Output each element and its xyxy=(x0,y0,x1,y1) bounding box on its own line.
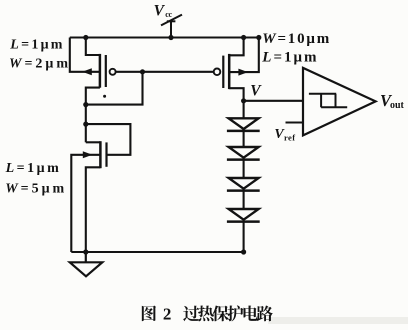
pmos M2 drain wire xyxy=(229,88,243,101)
nmos M3 gate bar xyxy=(105,142,107,166)
pmos M2 gate bar xyxy=(222,56,224,88)
svg-text:V: V xyxy=(250,82,262,99)
pmos M1 gate bubble xyxy=(110,69,116,75)
svg-text:W=10μm: W=10μm xyxy=(262,31,331,47)
nmos M3 gate tie wire xyxy=(86,124,131,155)
pmos M2 body arrow xyxy=(238,69,248,76)
pmos M2 source wire xyxy=(229,38,243,56)
wire: ground rail xyxy=(71,251,243,253)
diode D1 xyxy=(227,118,260,131)
wire: D3 to D4 xyxy=(243,191,245,209)
junction dot: M1 drain node xyxy=(83,102,88,107)
wire: M1 gate-drain tie xyxy=(86,72,143,105)
wire: Vcc power rail xyxy=(70,36,259,38)
svg-text:W=2μm: W=2μm xyxy=(9,57,71,72)
comparator U1 xyxy=(303,68,376,135)
wire: node V to comparator input xyxy=(244,100,303,102)
wire: Vref input xyxy=(286,121,304,123)
wire: M1 drain down to M3 xyxy=(85,105,87,143)
pmos M2 body wire xyxy=(229,38,259,73)
nmos M3 body arrow xyxy=(83,151,93,158)
junction dot: node V xyxy=(241,98,246,103)
hysteresis symbol xyxy=(309,94,347,108)
pmos M1 gate bar xyxy=(105,55,107,87)
pmos M1 drain wire xyxy=(86,88,100,105)
junction dot: rail end at M2 body xyxy=(256,35,261,40)
svg-text:L=1μm: L=1μm xyxy=(9,38,64,53)
nmos M3 source wire xyxy=(86,167,101,252)
junction dot: chain bottom xyxy=(241,249,246,254)
junction dot: M2 source on rail xyxy=(241,35,246,40)
Vcc supply stub with slash xyxy=(161,15,182,38)
ground symbol xyxy=(70,252,103,276)
wire: D1 to D2 xyxy=(243,131,245,147)
nmos M3 drain stub xyxy=(86,141,101,143)
pmos M2 channel xyxy=(228,54,231,89)
svg-text:out: out xyxy=(390,100,405,111)
svg-text:L=1μm: L=1μm xyxy=(261,50,318,66)
junction dot: ground tap xyxy=(83,249,88,254)
pmos M1 source wire xyxy=(86,38,100,56)
svg-text:L=1μm: L=1μm xyxy=(5,161,62,176)
svg-text:W=5μm: W=5μm xyxy=(5,182,67,197)
svg-text:V: V xyxy=(154,2,166,19)
wire: D2 to D3 xyxy=(243,160,245,178)
pmos M1 body wire to rail xyxy=(70,38,100,72)
caption: 图 2 过热保护电路 xyxy=(142,305,273,324)
faint scan smudge bottom right xyxy=(268,317,408,324)
pmos M1 channel xyxy=(99,54,102,88)
nmos M3 channel xyxy=(99,141,102,168)
diode D4 xyxy=(227,209,260,222)
junction dot: Vcc tap xyxy=(168,35,173,40)
svg-text:cc: cc xyxy=(165,10,172,19)
stray mark dot xyxy=(103,95,106,98)
junction dot: M1 source on rail xyxy=(83,35,88,40)
junction dot on gate bus xyxy=(140,69,145,74)
pmos M2 gate bubble xyxy=(214,69,221,76)
junction dot: M3 gate tap xyxy=(83,122,88,127)
wire: D4 to ground rail xyxy=(243,222,245,252)
svg-text:ref: ref xyxy=(284,133,295,143)
svg-text:2: 2 xyxy=(163,305,172,324)
wire: gate bus M1-M2 xyxy=(116,71,214,73)
diode D3 xyxy=(227,178,260,191)
wire: V to D1 xyxy=(243,101,245,119)
pmos M1 body arrow xyxy=(82,68,92,75)
nmos M3 body wire xyxy=(71,155,100,252)
diode D2 xyxy=(227,147,260,160)
